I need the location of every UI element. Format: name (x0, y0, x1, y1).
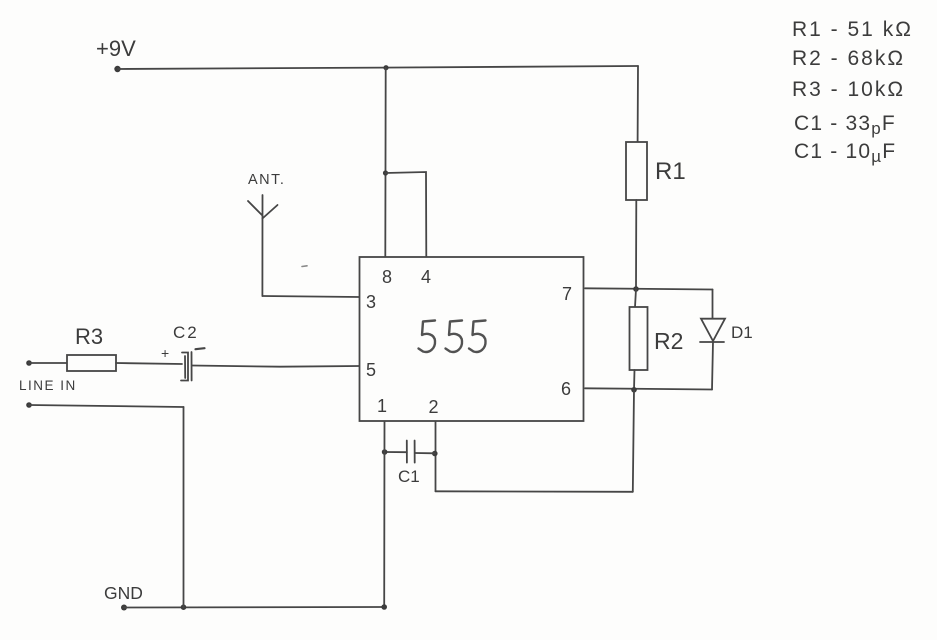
svg-text:R2 - 68kΩ: R2 - 68kΩ (792, 47, 905, 70)
svg-text:D1: D1 (731, 323, 753, 342)
capacitor C1 (407, 441, 415, 463)
svg-text:5: 5 (366, 360, 376, 380)
label 555 (419, 321, 486, 352)
wire R2 to pin6 node (633, 370, 636, 390)
wire +9V to R1 (637, 66, 639, 142)
wire pin2 return horizontal (436, 490, 633, 493)
resistor R2 (630, 307, 648, 370)
wire ground rail (124, 606, 384, 609)
wire pin 7 horizontal (585, 288, 713, 289)
wire D1 anode from pin7 rail (712, 290, 714, 319)
svg-text:+9V: +9V (96, 36, 136, 61)
wire C1 left lead (385, 451, 407, 453)
junction C1 right (432, 451, 438, 457)
wire +9V rail horizontal (118, 66, 638, 69)
wire D1 cathode to pin6 rail (712, 342, 713, 390)
svg-text:C1: C1 (398, 467, 420, 486)
svg-text:R1: R1 (655, 158, 686, 185)
capacitor C2 (181, 352, 192, 381)
wire pin 1 vertical to ground (383, 421, 385, 607)
wire antenna to pin 3 (262, 296, 359, 297)
wire R3 to C2 (116, 363, 182, 364)
junction C1 left on pin1 wire (382, 449, 388, 455)
junction pin8 on +9V rail (383, 65, 388, 70)
svg-text:ANT.: ANT. (248, 172, 285, 188)
wire C1 right lead (415, 452, 435, 454)
diode D1 (700, 319, 725, 342)
antenna (248, 195, 278, 296)
resistor R1 (626, 142, 647, 200)
resistor R3 (67, 355, 116, 371)
svg-text:1: 1 (377, 396, 387, 416)
wire pin6 node down (633, 390, 634, 492)
wire R1 to pin7 node (635, 200, 637, 289)
svg-text:R3 - 10kΩ: R3 - 10kΩ (792, 78, 905, 101)
wire pin 8 vertical (384, 68, 386, 257)
svg-text:3: 3 (366, 292, 376, 312)
wire pin7 node down to R2 (635, 289, 636, 307)
wire pin 2 vertical (435, 421, 437, 491)
wire terminal to R3 (29, 362, 67, 364)
wire line-in ground horizontal (29, 405, 184, 407)
junction pin7/R1/R2 (633, 286, 639, 292)
wire C2 to pin 5 (192, 366, 360, 367)
junction line-in ground (181, 604, 187, 610)
stray pen speck (302, 265, 307, 268)
wire pin 4 branch (386, 172, 427, 257)
junction pin4 branch (383, 170, 388, 175)
svg-text:4: 4 (421, 267, 431, 287)
wire line-in ground vertical (183, 407, 185, 607)
node LINE IN ground terminal (26, 402, 32, 408)
svg-text:2: 2 (429, 397, 439, 417)
svg-text:8: 8 (382, 267, 392, 287)
svg-text:6: 6 (561, 379, 571, 399)
op-amp U1 555 timer body (360, 257, 584, 421)
node +9V terminal (114, 66, 120, 72)
junction pin1 ground (381, 604, 387, 610)
svg-text:+: + (161, 345, 169, 361)
svg-text:R1 - 51 kΩ: R1 - 51 kΩ (792, 18, 913, 41)
svg-text:LINE IN: LINE IN (19, 378, 77, 393)
wire pin 6 horizontal (585, 388, 712, 389)
junction pin6/R2 (631, 387, 637, 393)
label C2 minus (196, 348, 205, 349)
svg-text:C2: C2 (173, 323, 199, 342)
node GND terminal (121, 605, 127, 611)
svg-text:R3: R3 (75, 324, 103, 349)
svg-text:R2: R2 (654, 328, 683, 354)
svg-text:GND: GND (104, 583, 143, 603)
node LINE IN hot terminal (26, 360, 32, 366)
svg-text:7: 7 (562, 284, 572, 304)
